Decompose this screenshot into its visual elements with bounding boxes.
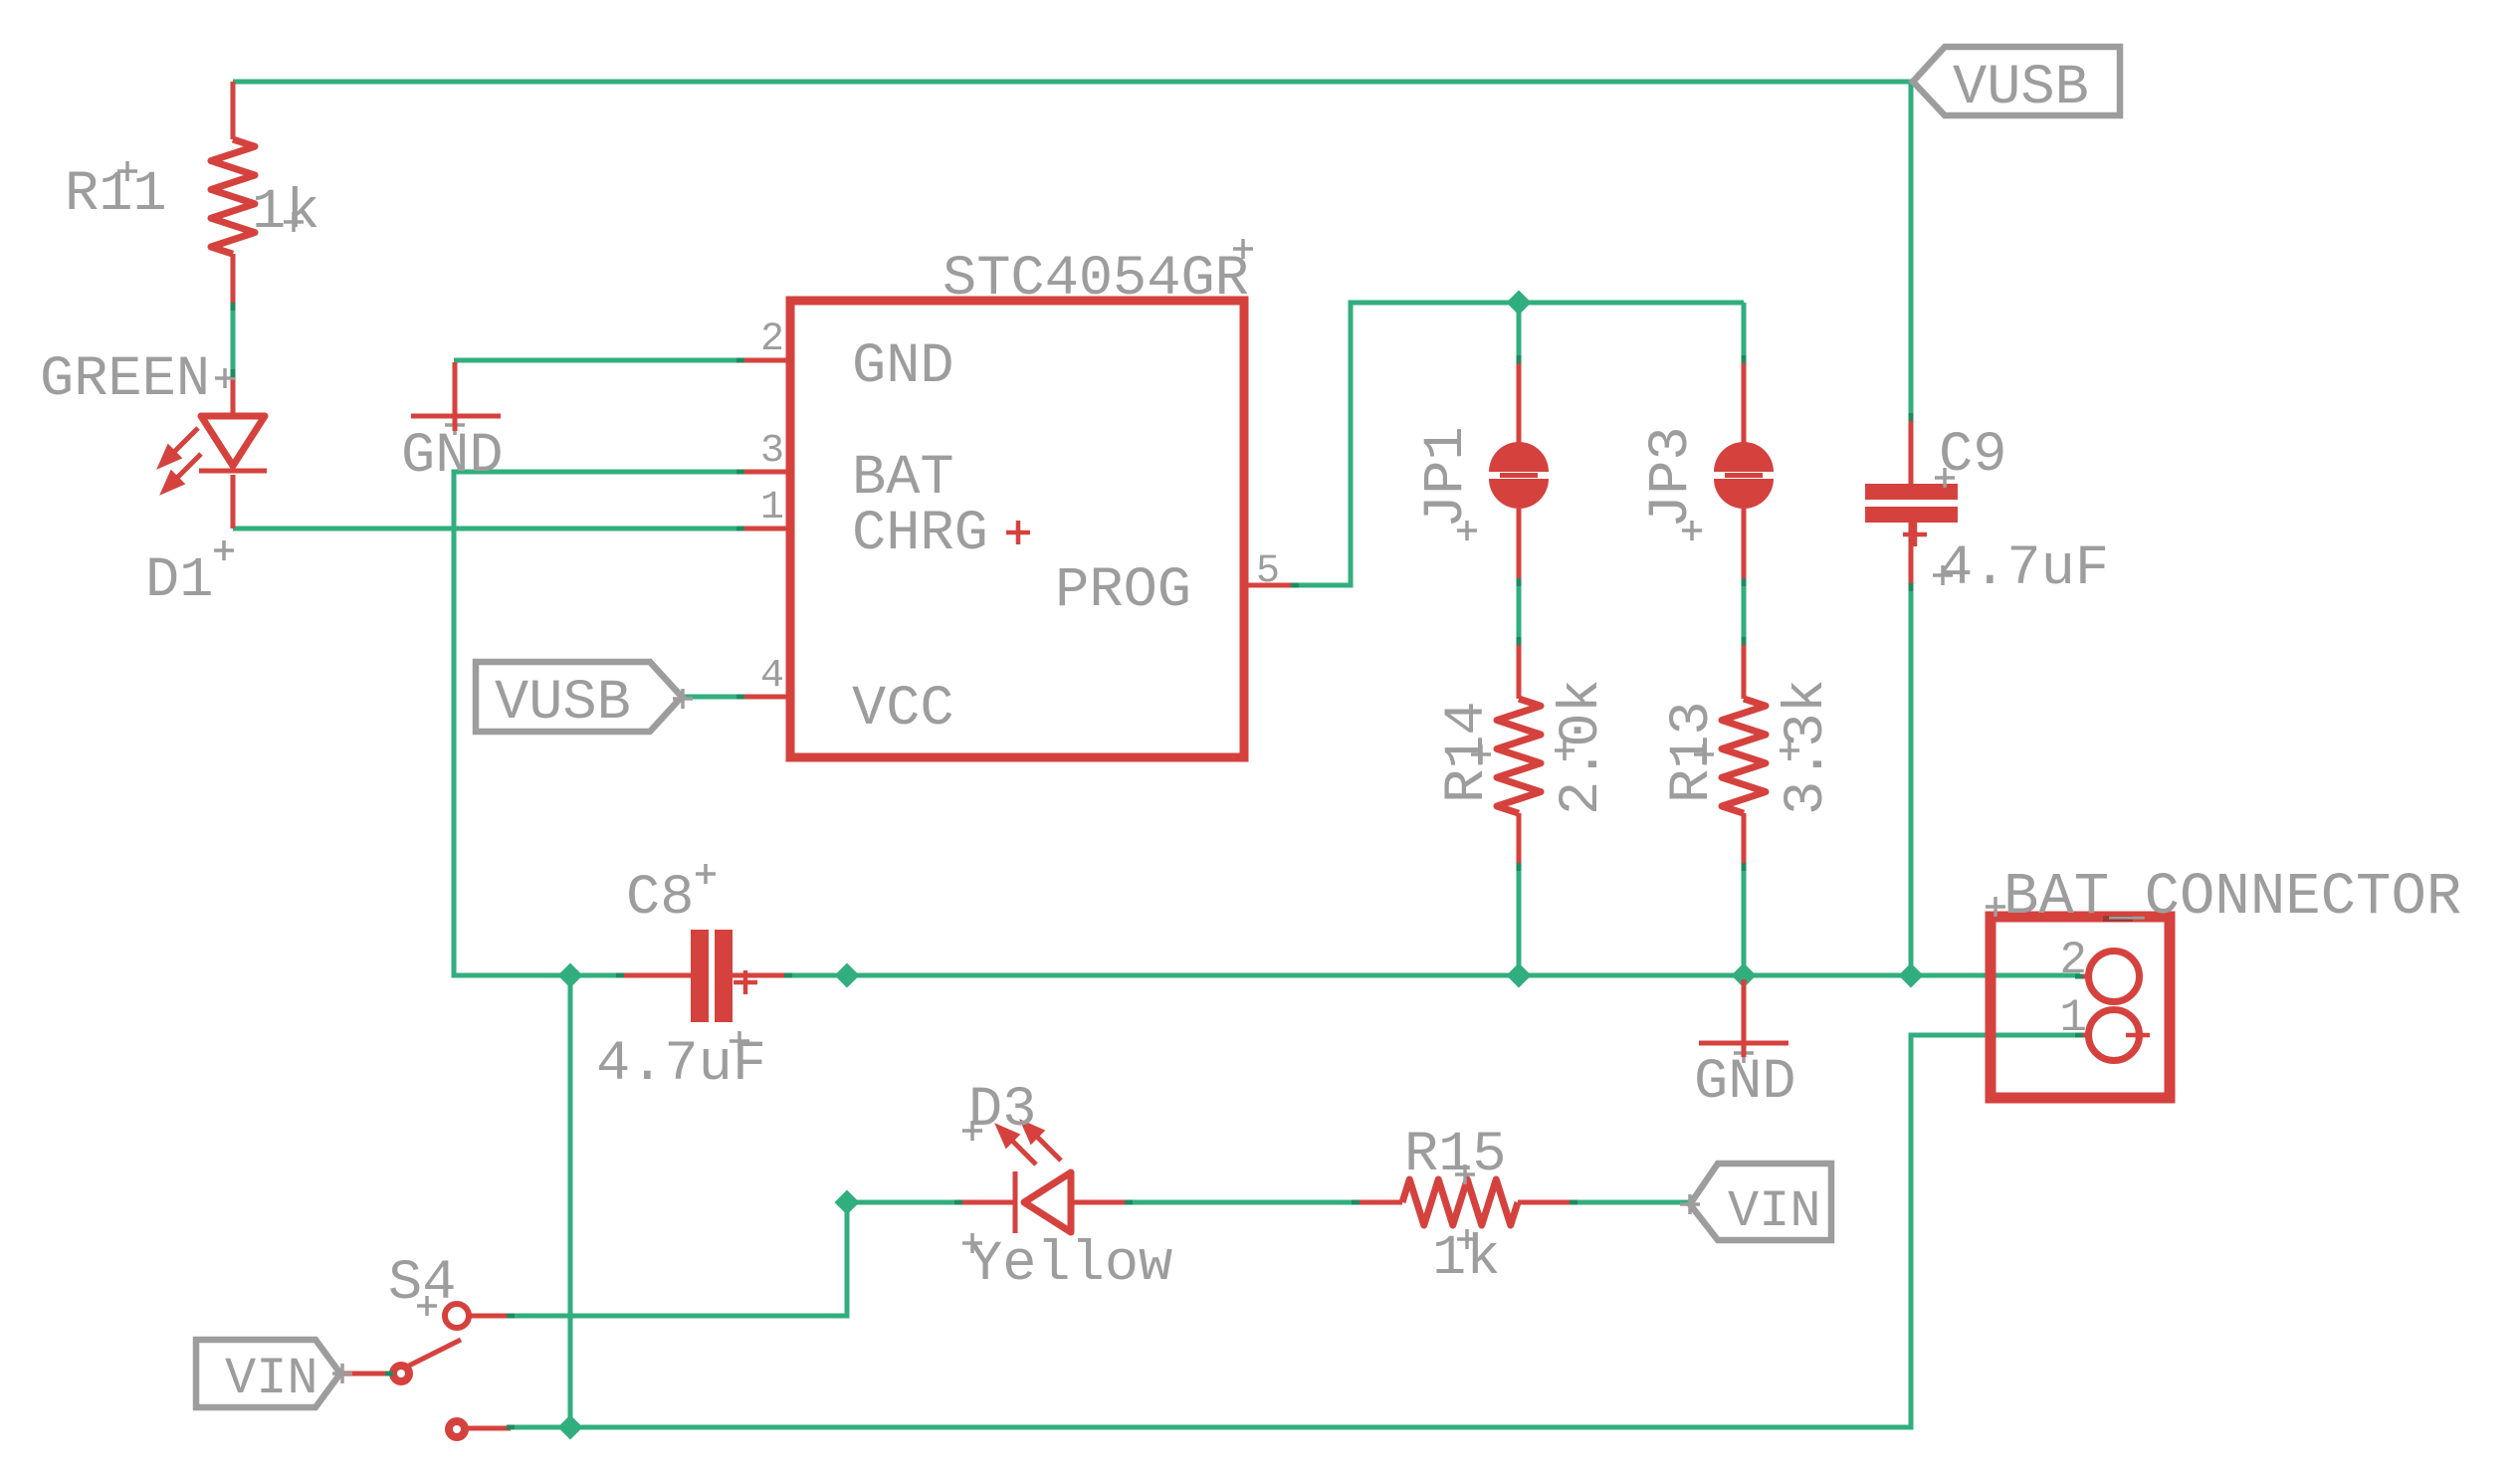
svg-text:R15: R15 [1404,1124,1507,1187]
origin cross D3 [962,1121,982,1141]
net flag VIN right [1690,1164,1831,1240]
origin cross R11 [117,161,137,181]
origin cross Yellow [962,1233,982,1253]
resistor R13 [1722,641,1766,867]
IC U1 STC4054GR box [790,301,1244,757]
origin cross S4 [417,1296,437,1316]
svg-text:VUSB: VUSB [1953,57,2089,120]
svg-text:PROG: PROG [1055,559,1191,623]
wire VUSB flag to IC pin4 VCC [682,695,737,700]
pin 2 stub [743,358,790,363]
wire net VUSB top horizontal [233,82,1911,418]
svg-text:GND: GND [852,335,954,399]
svg-text:1k: 1k [252,181,319,245]
wire S4 top row [511,1202,847,1316]
jumper JP1 [1489,359,1549,582]
pad 1 of BAT connector [2075,1010,2150,1061]
svg-text:STC4054GR: STC4054GR [943,248,1249,312]
wire BAT row left of C8 [570,973,621,978]
LED D3 Yellow [959,1124,1129,1233]
junction node R13 GND [1732,963,1757,988]
svg-text:VCC: VCC [852,678,954,742]
svg-text:D1: D1 [145,549,213,613]
wire BAT row right of C8 to pad 2 [787,973,2080,978]
wire C8 junction down to bottom row [568,975,573,1427]
svg-text:R13: R13 [1661,701,1725,803]
origin cross 2.0k [1555,741,1574,760]
wire JP1 top segment [1517,303,1522,359]
pin 3 stub [743,470,790,475]
wire IC pin5 PROG horizontal [1292,303,1744,585]
origin cross GND near R13 [1734,1043,1754,1063]
origin cross GREEN [215,368,235,388]
net flag VIN bottom left [196,1340,340,1407]
wire IC pin3 BAT horizontal [454,472,743,975]
wire IC pin2 GND [454,358,743,363]
pin 4 stub [743,695,790,700]
wire JP3 to R13 segment [1742,582,1747,641]
wire C9 bottom to BAT row [1909,587,1914,975]
svg-text:2: 2 [760,318,784,362]
junction node C8 right [835,963,860,988]
wire battery negative vertical [511,1035,2080,1427]
junction node C9 pad2 [1899,963,1924,988]
origin cross 4.7uF C9 [1933,565,1953,585]
pin 1 stub [743,527,790,531]
LED D1 GREEN [161,372,267,529]
resistor R14 [1497,641,1541,867]
resistor R11 [211,82,255,310]
wire R13 bottom segment [1742,867,1747,975]
origin cross D1 [214,540,234,560]
svg-text:VIN: VIN [1728,1182,1821,1241]
svg-text:3: 3 [760,429,784,474]
junction node R14 bottom [1507,963,1532,988]
svg-text:4.7uF: 4.7uF [1939,537,2109,601]
svg-text:5: 5 [1256,549,1280,594]
svg-text:3.3k: 3.3k [1776,679,1839,815]
wire R14 bottom segment [1517,867,1522,975]
svg-text:CHRG: CHRG [852,503,988,566]
origin cross R13 [1694,744,1714,764]
svg-text:2.0k: 2.0k [1551,679,1614,815]
pin 5 stub [1244,583,1292,588]
net flag VUSB top right [1913,47,2120,115]
origin cross 3.3k [1780,741,1799,760]
svg-text:VUSB: VUSB [495,672,631,736]
origin cross GND near IC [445,415,465,435]
wire R11 to D1 [231,310,236,372]
svg-text:C8: C8 [626,867,694,931]
origin cross 4.7uF C8 [730,1031,749,1051]
connector BAT CONNECTOR box [1991,917,2170,1098]
capacitor C9 [1865,418,1958,587]
svg-text:R11: R11 [65,163,167,227]
svg-text:VIN: VIN [225,1350,318,1408]
origin cross R14 [1471,744,1491,764]
origin cross R15 [1455,1165,1475,1184]
svg-text:GND: GND [1694,1051,1796,1115]
origin cross 1k [284,212,304,232]
svg-text:R14: R14 [1436,701,1500,803]
origin cross C9 [1935,468,1955,488]
wire D3 left [847,1200,959,1205]
wire D3 to R15 [1129,1200,1356,1205]
junction node JP top [1507,291,1532,316]
svg-text:1: 1 [760,486,784,530]
svg-text:GND: GND [401,425,504,489]
wire D1 cathode to IC pin1 CHRG [233,527,743,531]
svg-text:GREEN: GREEN [40,348,210,412]
overlap marks where leads meet nets [233,303,2083,1427]
svg-text:D3: D3 [968,1079,1036,1143]
svg-text:4: 4 [760,654,784,699]
wire JP1 to R14 segment [1517,582,1522,641]
net flag VUSB at pin4 [476,662,682,732]
ground GND near R13 [1699,979,1788,1057]
capacitor C8 [621,930,787,1022]
pad 2 of BAT connector [2075,952,2140,1002]
resistor R15 [1356,1179,1574,1225]
origin cross C8 [696,864,716,884]
junction node D3 left [835,1190,860,1215]
origin cross JP1 [1457,521,1477,540]
origin cross VIN right flag [1680,1194,1700,1214]
svg-text:Yellow: Yellow [968,1233,1172,1297]
wire JP3 top segment [1742,303,1747,359]
origin cross VIN bottom flag [332,1364,352,1383]
junction node bottom S4 [558,1415,583,1440]
origin cross JP3 [1682,521,1702,540]
origin cross VUSB mid flag [673,689,693,709]
svg-text:BAT: BAT [852,447,954,511]
red plus mark at CHRG pin [1006,521,1030,544]
junction node C8 left [558,963,583,988]
origin cross BAT CONNECTOR [1986,897,2005,917]
svg-text:JP3: JP3 [1640,426,1704,529]
svg-text:BAT_CONNECTOR: BAT_CONNECTOR [2003,864,2461,931]
origin cross STC4054GR [1233,239,1253,259]
origin cross 1k R15 [1457,1229,1477,1249]
switch S4 [343,1304,511,1441]
svg-text:JP1: JP1 [1415,426,1479,529]
wire R15 to VIN flag [1574,1200,1690,1205]
ground GND near IC [411,362,501,431]
jumper JP3 [1714,359,1774,582]
